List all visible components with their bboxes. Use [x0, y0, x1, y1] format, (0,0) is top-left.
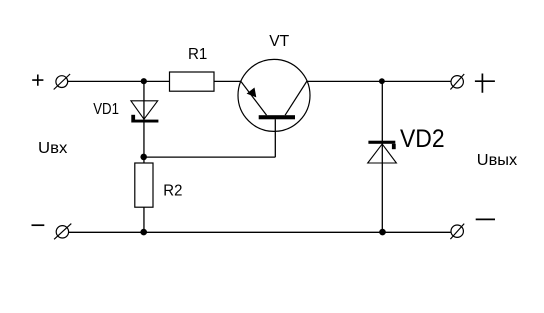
- wire: VD1 branch vertical: [143, 81, 145, 157]
- node: junction R1/VD1: [141, 78, 147, 84]
- wire: transistor to output junction: [307, 80, 382, 82]
- resistor R2: [135, 163, 153, 207]
- wire: junction to output terminal: [382, 80, 451, 82]
- output terminal bottom (circle with slash): [450, 224, 464, 240]
- wire: R1 to transistor: [214, 80, 241, 82]
- resistor R1: [170, 72, 215, 91]
- node: junction VD1/R2/base: [140, 154, 147, 161]
- wire: top rail input terminal to junction: [68, 80, 144, 82]
- input terminal bottom (circle with slash): [54, 224, 71, 240]
- svg-text:VT: VT: [269, 33, 289, 50]
- output terminal top (circle with slash): [450, 74, 464, 90]
- zener diode VD1: [131, 101, 159, 123]
- wire: output vertical VD2 branch: [381, 81, 383, 232]
- svg-text:Uвх: Uвх: [38, 140, 67, 157]
- zener diode VD2: [368, 141, 397, 163]
- transistor VT: [238, 59, 310, 131]
- terminal polarity + (input): [32, 75, 43, 86]
- terminal polarity - (input): [32, 224, 45, 226]
- node: junction bottom right: [379, 229, 386, 236]
- terminal polarity + (output): [475, 74, 495, 93]
- node: junction bottom left: [140, 229, 147, 236]
- svg-text:R2: R2: [163, 183, 182, 200]
- svg-text:R1: R1: [188, 46, 207, 63]
- svg-text:Uвых: Uвых: [477, 152, 517, 169]
- wire: mid rail junction to base lead: [144, 156, 276, 158]
- wire: R1 left lead: [144, 80, 170, 82]
- node: output junction top: [379, 78, 385, 84]
- wire: transistor bottom lead: [274, 119, 276, 157]
- input terminal top (circle with slash): [54, 74, 70, 90]
- svg-text:VD2: VD2: [400, 125, 445, 153]
- wire: R2 vertical branch: [143, 157, 145, 232]
- svg-text:VD1: VD1: [93, 101, 119, 118]
- terminal polarity - (output): [476, 218, 495, 220]
- wire: bottom rail: [69, 231, 451, 233]
